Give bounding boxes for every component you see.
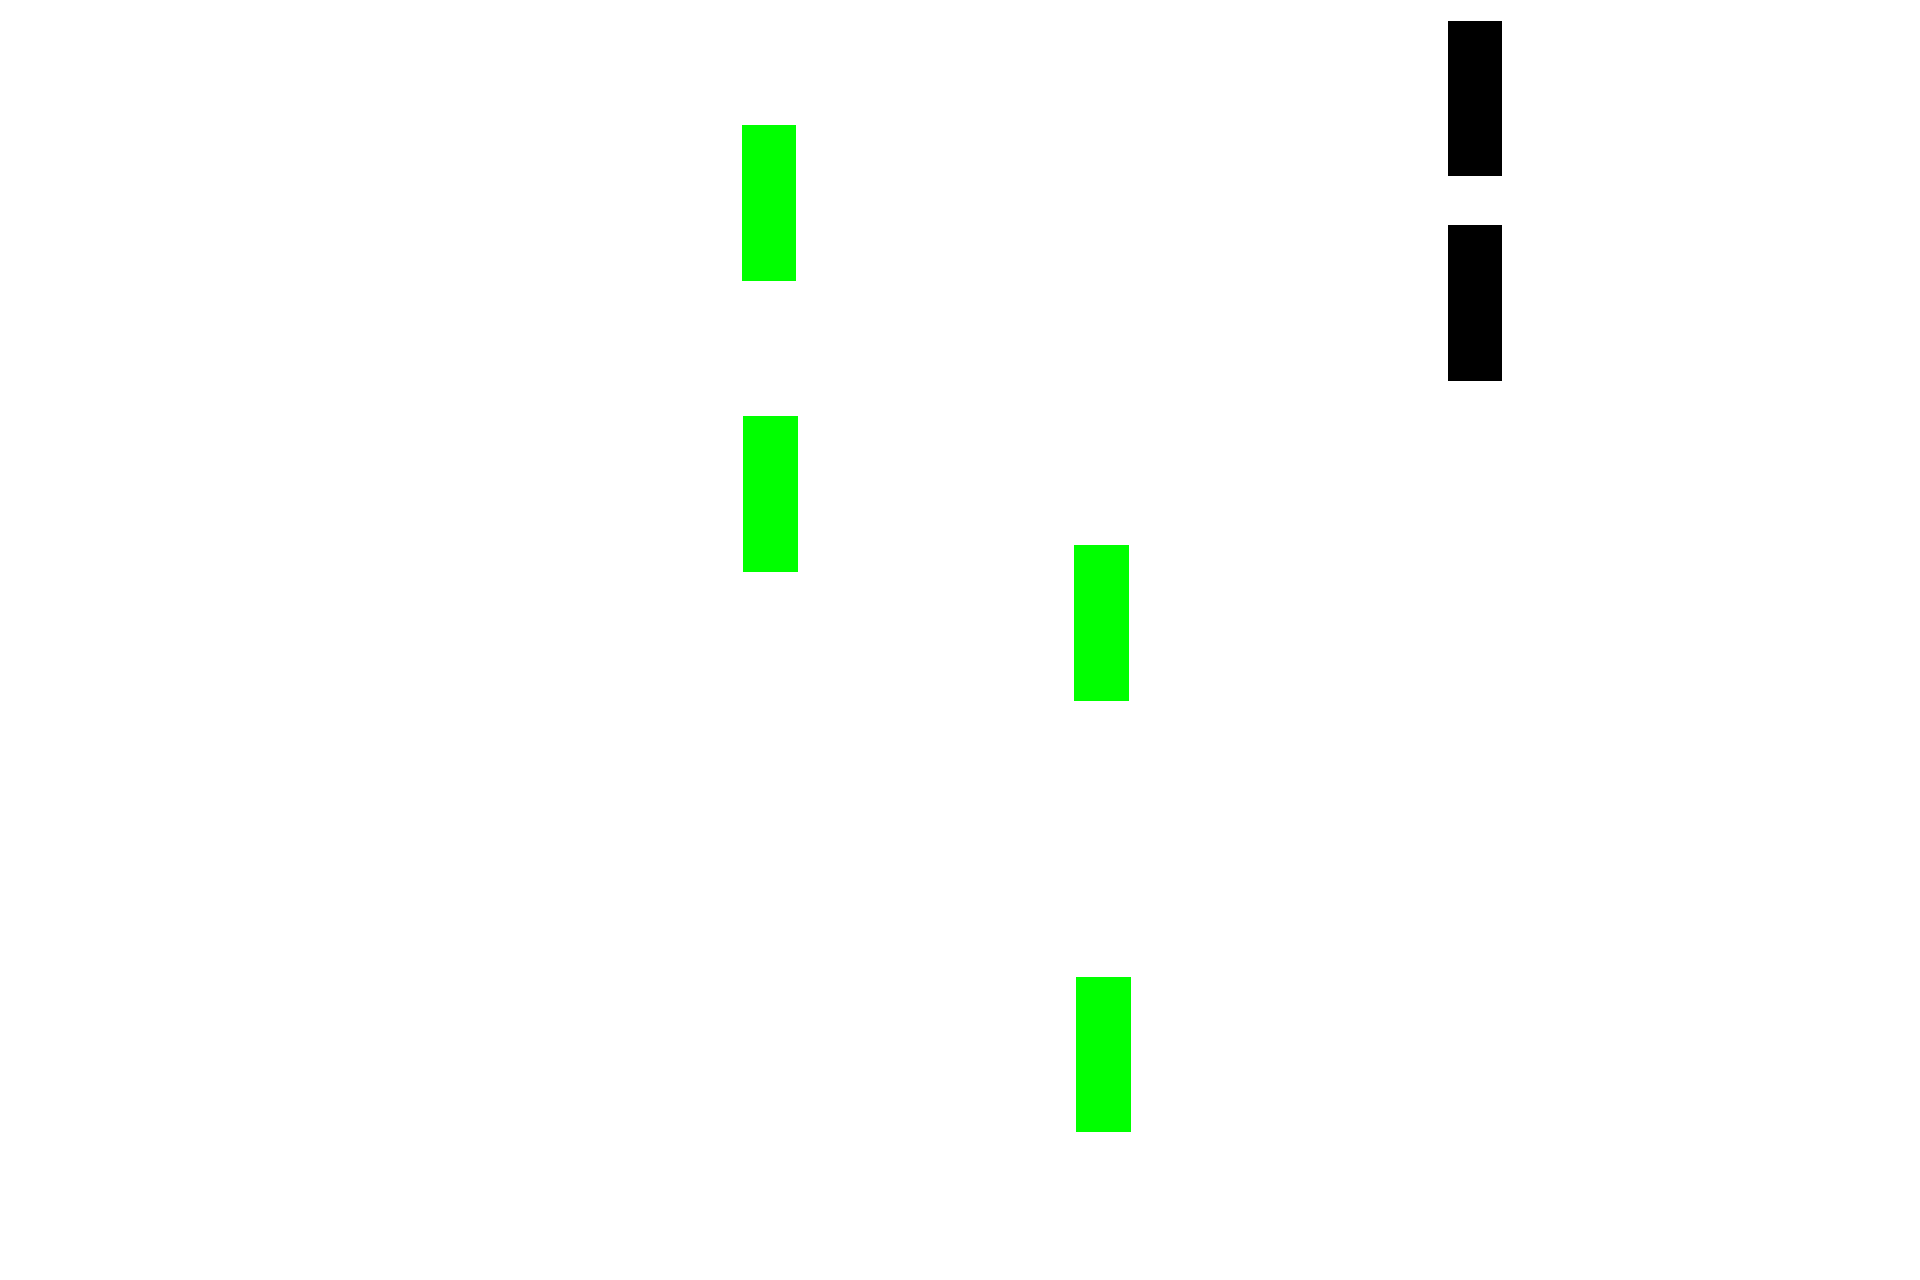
green tile 1 (column 2)	[742, 125, 796, 281]
green tile 3 (column 3)	[1074, 545, 1129, 701]
black tile 1 (column 4)	[1448, 21, 1502, 176]
green tile 4 (column 3)	[1076, 977, 1131, 1132]
green tile 2 (column 2)	[743, 416, 798, 572]
black tile 2 (column 4)	[1448, 225, 1502, 381]
